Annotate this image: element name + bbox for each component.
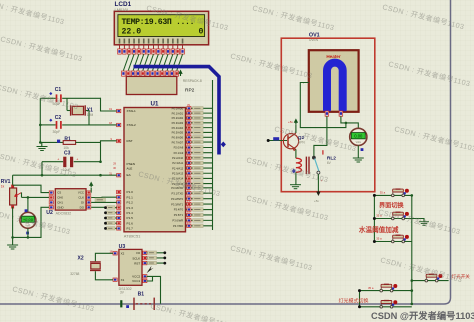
svg-text:22.0: 22.0 <box>122 28 142 37</box>
svg-text:DO: DO <box>80 205 85 209</box>
svg-text:GND: GND <box>57 205 63 209</box>
push button K2 <box>392 212 409 220</box>
wire diagonals LCD to RP2 <box>123 54 182 70</box>
button group bottom tie <box>359 291 361 307</box>
svg-text:VCC1: VCC1 <box>132 279 140 283</box>
svg-text:P3.7/RD: P3.7/RD <box>173 224 183 228</box>
ground below relay coil <box>290 185 301 189</box>
svg-text:AT89C51: AT89C51 <box>124 234 141 239</box>
svg-text:+: + <box>76 157 78 161</box>
relay RL2 switch <box>312 150 323 183</box>
svg-text:30pF: 30pF <box>53 130 61 134</box>
wire oven sense to heater net <box>300 83 346 128</box>
oven enclosure OV1 <box>281 33 375 192</box>
svg-text:P2.5/A13: P2.5/A13 <box>172 171 184 175</box>
svg-text:35 a: 35 a <box>376 236 382 240</box>
LCD pins terminals <box>118 45 185 54</box>
svg-text:C3: C3 <box>64 150 71 156</box>
svg-text:SCLK: SCLK <box>132 256 140 260</box>
U1 right pin wires and terminals <box>186 103 213 228</box>
svg-text:P2.2/A10: P2.2/A10 <box>172 156 184 160</box>
svg-text:P1.3: P1.3 <box>127 206 134 210</box>
capacitor C2 30pF <box>40 115 61 134</box>
capacitor C3 10uF electrolytic <box>42 150 101 172</box>
wire U2 CS to +5V net <box>13 185 49 192</box>
battery B1 <box>120 291 154 310</box>
svg-text:X2: X2 <box>121 252 125 256</box>
wire button row 1 <box>374 194 411 196</box>
svg-text:CH0: CH0 <box>57 196 63 200</box>
U1 left pin names <box>127 109 137 231</box>
ground right of button bus <box>419 222 429 226</box>
svg-text:P3.6/WR: P3.6/WR <box>172 219 183 223</box>
wire U3 VCC to battery <box>146 276 160 303</box>
svg-text:P0.2/AD2: P0.2/AD2 <box>172 116 184 120</box>
transistor Q2 NPN <box>283 133 305 151</box>
LCD display LCD1 LM016L <box>114 1 208 45</box>
push button K4 <box>425 274 442 282</box>
svg-text:I/O: I/O <box>136 251 141 255</box>
ground below RV1 <box>12 237 14 245</box>
push button K5 <box>380 284 397 292</box>
wire XTAL1 net <box>62 97 100 99</box>
wire base net with node <box>268 140 287 142</box>
ground near crystal caps <box>41 142 43 146</box>
svg-text:+5v: +5v <box>288 120 293 124</box>
svg-text:P3.1/TXD: P3.1/TXD <box>172 191 184 195</box>
svg-text:PSEN: PSEN <box>127 162 135 166</box>
svg-text:P0.1/AD1: P0.1/AD1 <box>172 111 184 115</box>
svg-text:P0.3/AD3: P0.3/AD3 <box>172 121 184 125</box>
svg-text:P0.0/AD0: P0.0/AD0 <box>172 107 184 111</box>
svg-text:水温阈值加减: 水温阈值加减 <box>359 225 399 234</box>
resistor pack RP2 RESPACK-8 <box>126 76 202 94</box>
svg-text:NPN: NPN <box>298 140 305 144</box>
svg-text:P3.4/T0: P3.4/T0 <box>174 208 184 212</box>
+5V arrow above U2 VCC <box>90 188 92 193</box>
svg-text:RESPACK-8: RESPACK-8 <box>183 79 202 83</box>
svg-text:P2.4/A12: P2.4/A12 <box>172 166 184 170</box>
svg-text:灯光模式切换: 灯光模式切换 <box>339 298 369 305</box>
relay RL2 coil <box>292 156 336 174</box>
svg-text:35 a: 35 a <box>380 190 386 194</box>
wire stubs P1.3-P1.7 net labels <box>0 0 1 1</box>
svg-text:P1.7: P1.7 <box>127 227 134 231</box>
wire U2 GND down <box>28 207 49 237</box>
wire button row 5 <box>360 290 412 292</box>
node diamond on blue wire <box>221 142 226 148</box>
svg-text:P0.5/AD5: P0.5/AD5 <box>172 131 184 135</box>
U1 right pin names <box>171 107 184 229</box>
svg-text:10k: 10k <box>63 146 69 150</box>
svg-text:C1: C1 <box>55 87 62 93</box>
svg-text:RST: RST <box>134 261 140 265</box>
svg-text:12M: 12M <box>87 113 94 117</box>
wire relay switch down out of oven <box>317 174 319 191</box>
wire button row 3 <box>374 241 411 243</box>
net arrow near RP2 <box>178 70 182 77</box>
svg-text:0: 0 <box>199 28 204 37</box>
wire heater right pin to voltmeter <box>341 116 358 128</box>
vertical green bus right of U1 <box>212 80 214 230</box>
svg-text:P1.1: P1.1 <box>127 195 134 199</box>
net arrow near U3 <box>147 266 154 274</box>
svg-text:P1.0: P1.0 <box>127 190 134 194</box>
svg-text:CSDN @开发者编号1103: CSDN @开发者编号1103 <box>371 310 474 321</box>
svg-text:C2: C2 <box>55 115 62 121</box>
svg-text:0.00: 0.00 <box>354 134 363 139</box>
svg-text:ALE: ALE <box>127 167 133 171</box>
wire relay coil to ground <box>295 172 297 184</box>
svg-text:P2.3/A11: P2.3/A11 <box>172 161 183 165</box>
ground below voltmeter <box>353 158 364 162</box>
microcontroller U1 AT89C51 <box>124 101 186 239</box>
svg-text:LM016L: LM016L <box>115 7 130 12</box>
svg-text:VCC: VCC <box>78 191 84 195</box>
ADC U2 ADC0832 <box>46 189 90 216</box>
crystal X1 12M <box>67 98 93 125</box>
potentiometer RV1 <box>1 175 28 237</box>
svg-text:RST: RST <box>127 139 133 143</box>
wire meter bottom to ground rail <box>13 228 28 237</box>
wire wiper node to CH0 and meter <box>28 196 49 198</box>
+5V arrow above Q2 collector <box>295 125 297 133</box>
svg-text:DI: DI <box>81 200 84 204</box>
wire RST net <box>101 141 117 162</box>
svg-text:1k: 1k <box>1 185 5 189</box>
wire U2 CLK DI DO to U1 P1 <box>91 196 116 198</box>
capacitor C1 30pF <box>40 87 61 106</box>
push button K1 <box>392 189 409 197</box>
svg-text:VCC2: VCC2 <box>132 275 140 279</box>
thick blue bus wire <box>134 67 220 155</box>
LCD pin name row <box>119 39 184 44</box>
svg-text:CLK: CLK <box>78 196 84 200</box>
wire button row 2 <box>374 218 411 220</box>
wire bus to button K4 <box>412 280 449 282</box>
wire emitter to relay coil <box>295 149 297 158</box>
svg-text:X2: X2 <box>78 256 84 262</box>
resistor R1 10k <box>42 137 101 150</box>
ammeter green display <box>20 197 36 234</box>
svg-text:P3.5/T1: P3.5/T1 <box>174 213 184 217</box>
svg-text:32768: 32768 <box>70 272 79 276</box>
svg-text:U1: U1 <box>151 101 159 108</box>
svg-text:P2.0/A8: P2.0/A8 <box>174 146 184 150</box>
svg-text:P1.4: P1.4 <box>127 211 134 215</box>
RP2 top pin terminals <box>122 71 179 76</box>
svg-text:35 a: 35 a <box>368 286 374 290</box>
wire U3 I/O SCLK RST to net labels <box>146 251 166 265</box>
svg-text:P2.1/A9: P2.1/A9 <box>174 151 184 155</box>
svg-text:Heater: Heater <box>326 54 341 59</box>
svg-text:P1.5: P1.5 <box>127 216 134 220</box>
svg-text:P3.2/INT0: P3.2/INT0 <box>171 197 184 201</box>
svg-text:U2: U2 <box>46 210 53 216</box>
svg-text:X1: X1 <box>121 278 125 282</box>
svg-text:P0.7/AD7: P0.7/AD7 <box>172 140 184 144</box>
wire C1 C2 ground vertical <box>39 98 41 142</box>
svg-text:P0.4/AD4: P0.4/AD4 <box>172 126 184 130</box>
svg-text:RP2: RP2 <box>185 87 195 93</box>
wire heater left pin to relay switch <box>314 116 327 156</box>
svg-text:B1: B1 <box>138 291 145 297</box>
button bus vertical right <box>411 195 413 304</box>
wire XTAL2 net <box>62 124 116 126</box>
svg-text:+: + <box>57 157 59 161</box>
wire +5V rail to EA <box>41 162 43 176</box>
svg-text:P3.3/INT1: P3.3/INT1 <box>171 202 184 206</box>
wire bus stub to ground <box>412 219 424 222</box>
U1 left pin terminals <box>109 107 121 230</box>
svg-text:P0.6/AD6: P0.6/AD6 <box>172 135 184 139</box>
svg-text:CH1: CH1 <box>57 200 63 204</box>
wire voltmeter to ground <box>357 146 359 158</box>
svg-text:XTAL2: XTAL2 <box>127 123 137 127</box>
wire button row 6 <box>360 306 412 308</box>
svg-text:ADC0832: ADC0832 <box>56 212 72 216</box>
svg-text:CS: CS <box>57 191 61 195</box>
voltmeter inside oven <box>350 128 367 145</box>
crystal X2 32768 <box>70 253 113 279</box>
svg-text:XTAL1: XTAL1 <box>127 109 137 113</box>
svg-text:P1.6: P1.6 <box>127 221 134 225</box>
svg-text:P1.2: P1.2 <box>127 201 134 205</box>
button group left tie <box>373 195 375 241</box>
svg-text:+5v: +5v <box>314 199 319 203</box>
RTC U3 DS1302 <box>110 244 147 291</box>
push button K6 <box>380 300 397 308</box>
heater element with blue coil <box>303 50 359 116</box>
push button K3 <box>392 235 409 243</box>
